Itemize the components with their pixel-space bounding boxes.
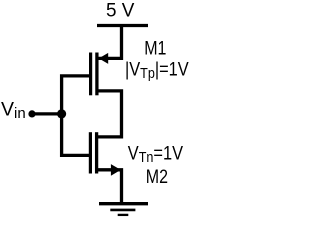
wire gate bus bbox=[62, 76, 90, 155]
wire Vin bbox=[32, 112, 62, 115]
node gate junction dot bbox=[57, 109, 66, 118]
transistor M1 channel bar bbox=[95, 53, 98, 96]
transistor M1 gate bar bbox=[89, 53, 92, 96]
ground bar 1 bbox=[99, 202, 148, 205]
svg-text:VTn=1V: VTn=1V bbox=[128, 142, 183, 165]
node Vin terminal dot bbox=[28, 110, 35, 117]
svg-text:5 V: 5 V bbox=[106, 0, 135, 21]
transistor M2 channel bar bbox=[95, 132, 98, 173]
wire M2 source to ground bbox=[97, 170, 122, 204]
ground bar 3 bbox=[118, 214, 129, 216]
svg-text:M2: M2 bbox=[146, 166, 168, 188]
transistor M1 source arrow bbox=[99, 53, 108, 64]
ground bar 2 bbox=[110, 209, 135, 212]
wire M1 drain to M2 drain (output) bbox=[97, 91, 122, 137]
transistor M2 gate bar bbox=[89, 132, 92, 173]
transistor M2 source arrow bbox=[111, 164, 121, 176]
svg-text:|VTp|=1V: |VTp|=1V bbox=[125, 58, 189, 81]
svg-text:M1: M1 bbox=[144, 37, 166, 59]
wire VDD to M1 source bbox=[97, 24, 122, 58]
VDD rail bbox=[97, 24, 148, 27]
